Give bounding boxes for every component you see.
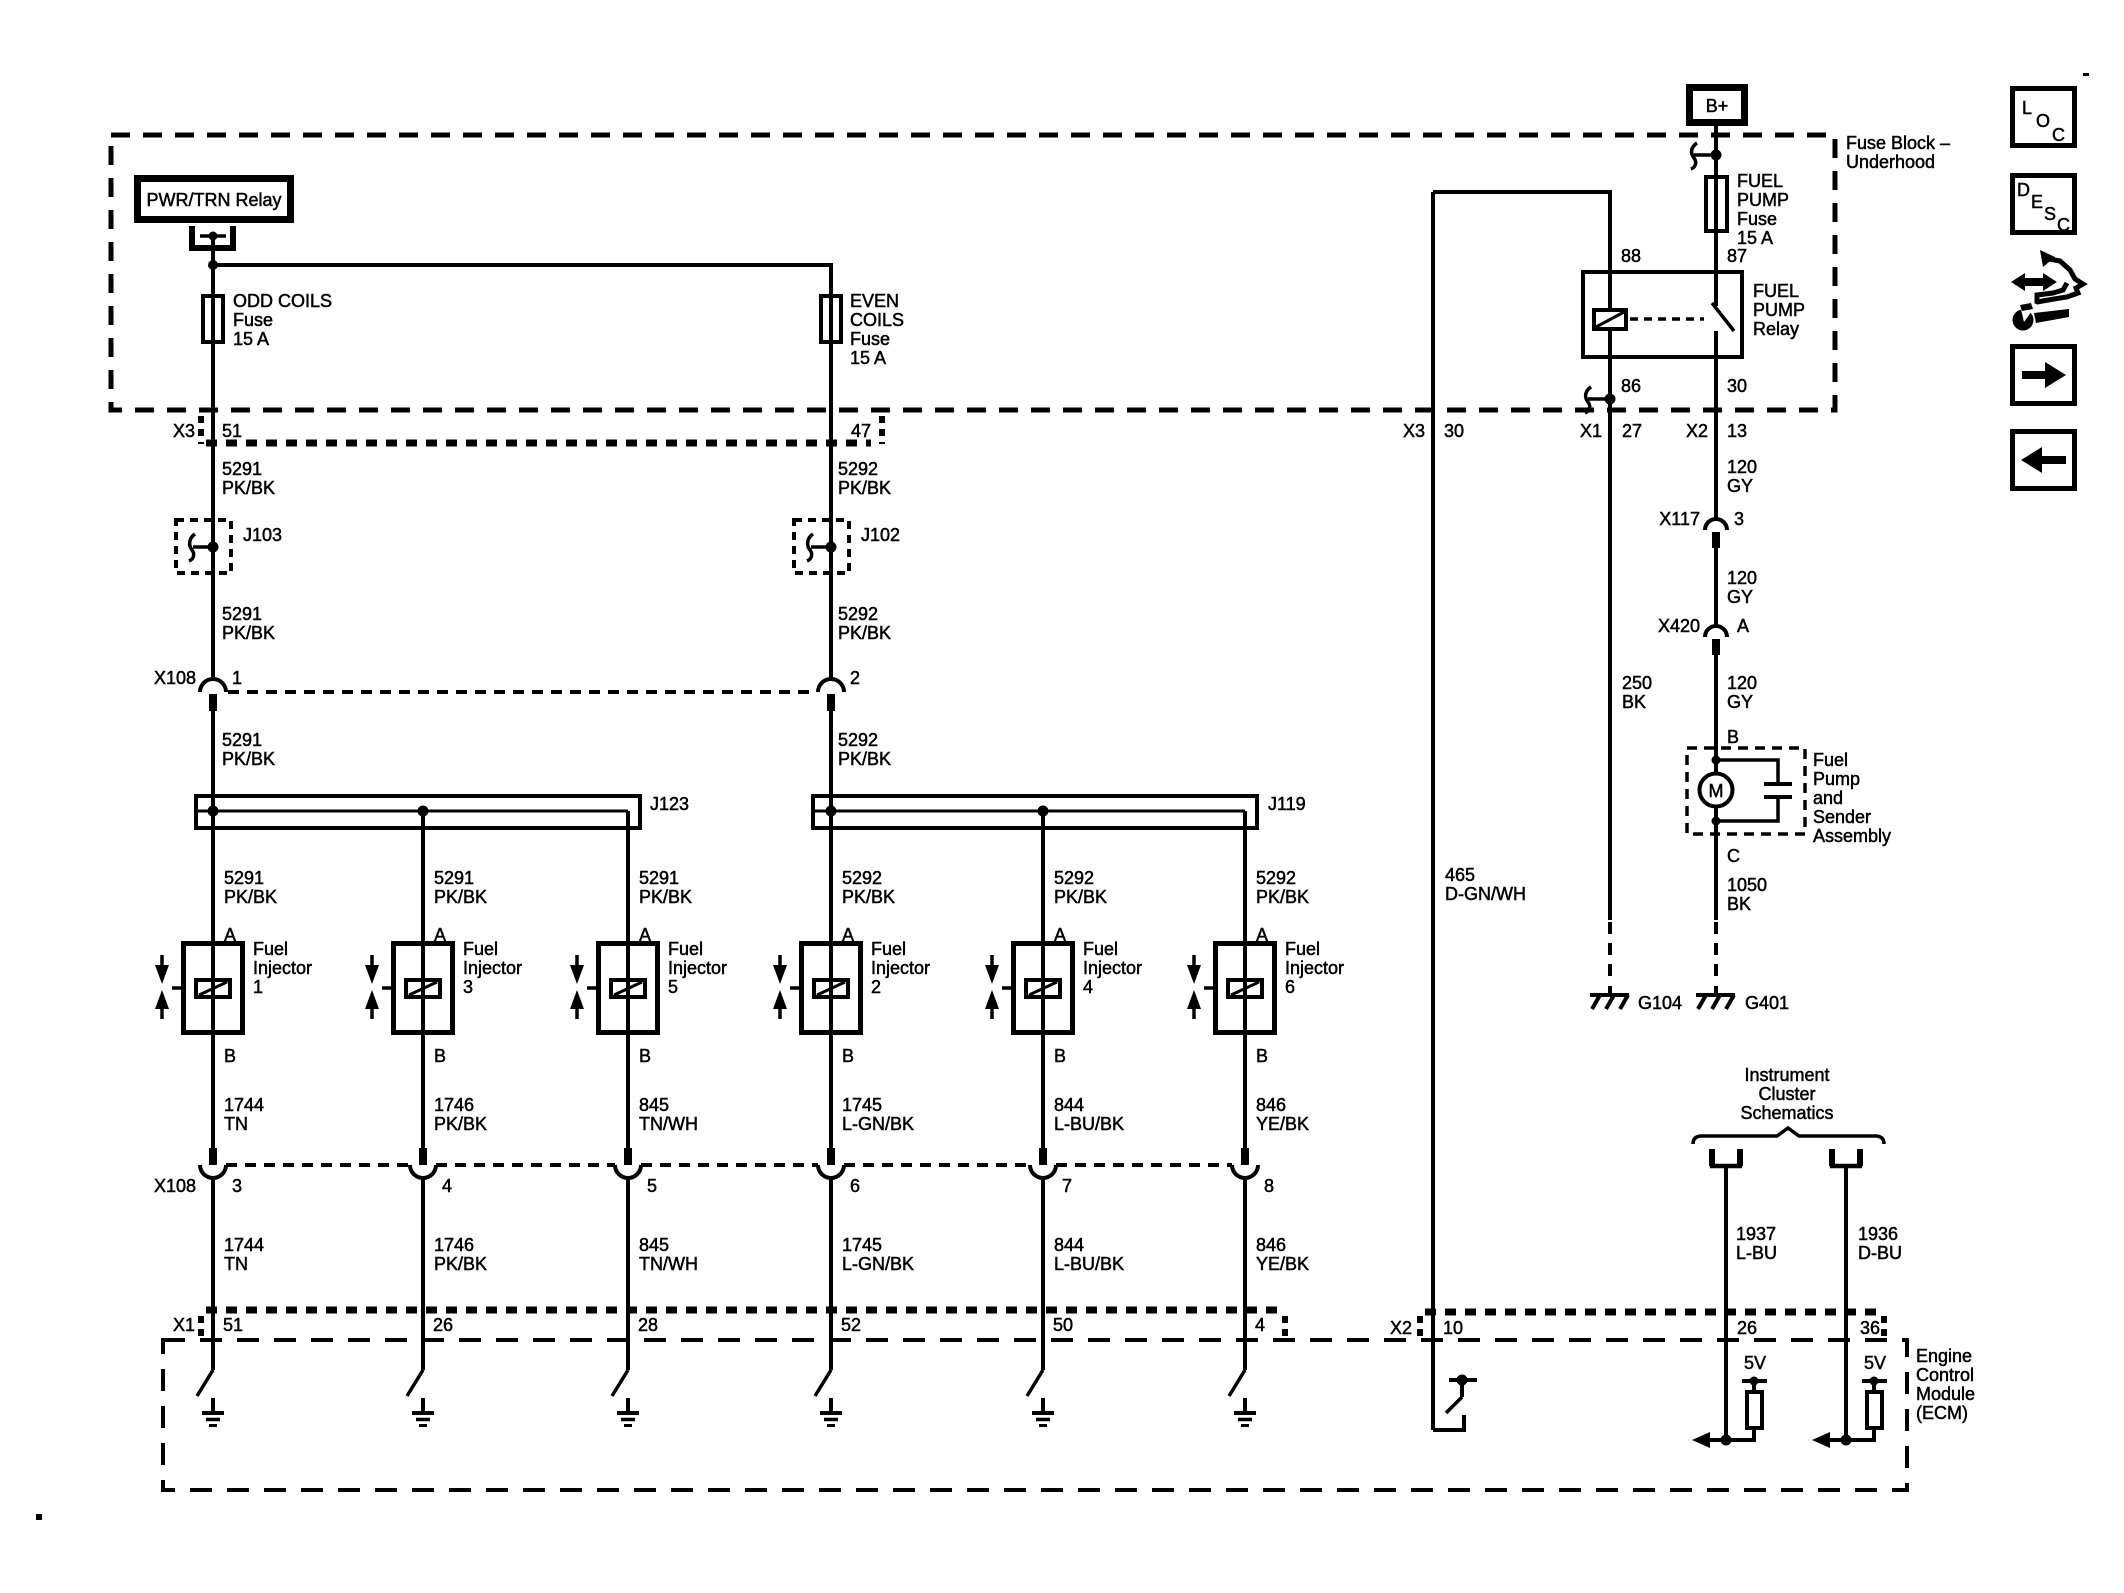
wire label 844 L-BU/BK (to ECM pin 50) xyxy=(1054,1235,1124,1274)
splice J102 xyxy=(794,520,900,573)
relay coil xyxy=(1594,310,1626,329)
5V reference label (pin 26) xyxy=(1744,1353,1766,1373)
wire label 250 BK xyxy=(1622,673,1652,712)
icon forward arrow button xyxy=(2013,347,2075,404)
svg-text:5: 5 xyxy=(647,1176,657,1196)
pump pin label C xyxy=(1727,846,1740,866)
fuel injector 3 xyxy=(365,939,522,1033)
svg-text:D-BU: D-BU xyxy=(1858,1243,1902,1263)
wire label 5291 PK/BK (injector 5 branch) xyxy=(639,868,692,907)
ground G104 xyxy=(1590,986,1682,1013)
svg-text:1744: 1744 xyxy=(224,1095,264,1115)
Engine Control Module dashed box xyxy=(163,1340,1975,1490)
wire 846 YE/BK from X108-8 to ECM xyxy=(1243,1176,1247,1370)
svg-text:844: 844 xyxy=(1054,1235,1084,1255)
ECM pullup resistor (pin 26) xyxy=(1692,1377,1767,1449)
dashed wire end 1050 BK to G401 xyxy=(1714,922,1718,978)
relay coil wire 88 side xyxy=(1433,192,1610,310)
svg-text:B: B xyxy=(1727,727,1739,747)
instrument cluster schematics note xyxy=(1740,1065,1833,1123)
svg-text:Fuel: Fuel xyxy=(871,939,906,959)
svg-text:6: 6 xyxy=(1285,977,1295,997)
svg-text:3: 3 xyxy=(463,977,473,997)
svg-text:1745: 1745 xyxy=(842,1235,882,1255)
relay pin 30 wire down xyxy=(1714,331,1718,519)
svg-text:TN: TN xyxy=(224,1254,248,1274)
svg-text:Fuel: Fuel xyxy=(1813,750,1848,770)
connector X108 pins 1/2 xyxy=(154,668,860,711)
svg-text:Relay: Relay xyxy=(1753,319,1799,339)
relay coil-switch dashed link xyxy=(1630,317,1704,321)
svg-text:5292: 5292 xyxy=(842,868,882,888)
wire 5292 from bus to fuel injector 2 xyxy=(829,794,833,1148)
pin A label injector 6 xyxy=(1256,925,1268,945)
ECM fuel pump relay driver switch xyxy=(1433,1375,1477,1431)
fuse ODD COILS 15 A xyxy=(203,291,332,349)
svg-text:PK/BK: PK/BK xyxy=(222,478,275,498)
connector X108 pin 7 terminal xyxy=(1030,1148,1056,1178)
svg-text:47: 47 xyxy=(851,421,871,441)
ground G401 xyxy=(1696,986,1789,1013)
brace under cluster note xyxy=(1693,1128,1884,1144)
svg-text:846: 846 xyxy=(1256,1095,1286,1115)
svg-text:5292: 5292 xyxy=(1256,868,1296,888)
relay pin label 30 xyxy=(1727,376,1747,396)
svg-text:30: 30 xyxy=(1444,421,1464,441)
junction node at top of odd/even feed xyxy=(208,260,218,270)
svg-text:Engine: Engine xyxy=(1916,1346,1972,1366)
connector X3 pin 30 xyxy=(1403,421,1464,441)
svg-text:J102: J102 xyxy=(861,525,900,545)
svg-text:FUEL: FUEL xyxy=(1737,171,1783,191)
svg-text:Injector: Injector xyxy=(1285,958,1344,978)
fuse block bus clip at relay pin 86 xyxy=(1585,387,1616,413)
fuel injector 5 xyxy=(570,939,727,1033)
icon vehicle diagnostic (arrows, car outline, wrench) xyxy=(2011,250,2083,331)
svg-text:PK/BK: PK/BK xyxy=(842,887,895,907)
svg-text:PUMP: PUMP xyxy=(1753,300,1805,320)
svg-text:L-BU: L-BU xyxy=(1736,1243,1777,1263)
svg-text:4: 4 xyxy=(1083,977,1093,997)
svg-text:Pump: Pump xyxy=(1813,769,1860,789)
svg-text:L-GN/BK: L-GN/BK xyxy=(842,1254,914,1274)
svg-text:5292: 5292 xyxy=(838,730,878,750)
dashed wire end 250 BK to G104 xyxy=(1608,922,1612,978)
svg-text:1: 1 xyxy=(232,668,242,688)
svg-text:Instrument: Instrument xyxy=(1744,1065,1829,1085)
svg-text:28: 28 xyxy=(638,1315,658,1335)
fuel injector 2 xyxy=(773,939,930,1033)
svg-text:D-GN/WH: D-GN/WH xyxy=(1445,884,1526,904)
svg-text:J103: J103 xyxy=(243,525,282,545)
fuel pump motor M xyxy=(1700,756,1733,826)
svg-text:L: L xyxy=(2022,98,2032,118)
wire label 1745 L-GN/BK (injector 2 to X108) xyxy=(842,1095,914,1134)
svg-text:1050: 1050 xyxy=(1727,875,1767,895)
fuel injector 4 xyxy=(985,939,1142,1033)
connector X108 pin 4 terminal xyxy=(410,1148,436,1178)
relay coil wire 86 side down xyxy=(1608,329,1612,920)
wire 5291 from X108-1 down to J123 xyxy=(211,711,215,794)
svg-text:PK/BK: PK/BK xyxy=(434,1254,487,1274)
svg-text:(ECM): (ECM) xyxy=(1916,1403,1968,1423)
svg-text:Injector: Injector xyxy=(668,958,727,978)
wire label 1937 L-BU xyxy=(1736,1224,1777,1263)
svg-text:GY: GY xyxy=(1727,587,1753,607)
ECM driver switch and ground (injector 1) xyxy=(197,1370,224,1426)
pin B label injector 6 xyxy=(1256,1046,1268,1066)
svg-text:X2: X2 xyxy=(1686,421,1708,441)
svg-text:C: C xyxy=(2052,125,2065,145)
svg-text:Injector: Injector xyxy=(1083,958,1142,978)
svg-text:X1: X1 xyxy=(1580,421,1602,441)
svg-text:Fuse: Fuse xyxy=(233,310,273,330)
ECM driver switch and ground (injector 4) xyxy=(1027,1370,1054,1426)
svg-text:1: 1 xyxy=(253,977,263,997)
svg-text:TN/WH: TN/WH xyxy=(639,1254,698,1274)
svg-text:X420: X420 xyxy=(1658,616,1700,636)
wire 5291 from bus to fuel injector 1 xyxy=(211,794,215,1148)
svg-text:PK/BK: PK/BK xyxy=(434,1114,487,1134)
wire 5291 from bus to fuel injector 3 xyxy=(421,811,425,1148)
svg-text:8: 8 xyxy=(1264,1176,1274,1196)
icon LOC button xyxy=(2013,89,2075,146)
svg-text:BK: BK xyxy=(1727,894,1751,914)
svg-text:B: B xyxy=(434,1046,446,1066)
svg-text:S: S xyxy=(2044,204,2056,224)
svg-text:M: M xyxy=(1709,781,1724,801)
svg-text:Fuel: Fuel xyxy=(463,939,498,959)
svg-text:5291: 5291 xyxy=(224,868,264,888)
wire 1050 BK from pump to G401 xyxy=(1714,807,1718,920)
svg-text:465: 465 xyxy=(1445,865,1475,885)
pin B label injector 1 xyxy=(224,1046,236,1066)
svg-text:15 A: 15 A xyxy=(850,348,886,368)
relay pin label 87 xyxy=(1727,246,1747,266)
svg-text:88: 88 xyxy=(1621,246,1641,266)
svg-text:2: 2 xyxy=(850,668,860,688)
connector X2 pin row 10/26/36 xyxy=(1390,1312,1884,1338)
svg-text:1745: 1745 xyxy=(842,1095,882,1115)
wire label 5292 PK/BK (injector 6 branch) xyxy=(1256,868,1309,907)
fuel injector 6 xyxy=(1187,939,1344,1033)
svg-text:51: 51 xyxy=(223,1315,243,1335)
B+ battery terminal box xyxy=(1690,88,1745,123)
svg-text:1936: 1936 xyxy=(1858,1224,1898,1244)
pin B label injector 4 xyxy=(1054,1046,1066,1066)
page speck bottom left xyxy=(36,1514,42,1520)
svg-text:Cluster: Cluster xyxy=(1758,1084,1815,1104)
svg-text:TN: TN xyxy=(224,1114,248,1134)
svg-text:1746: 1746 xyxy=(434,1095,474,1115)
svg-text:GY: GY xyxy=(1727,692,1753,712)
wire label 844 L-BU/BK (injector 4 to X108) xyxy=(1054,1095,1124,1134)
wire label 845 TN/WH (to ECM pin 28) xyxy=(639,1235,698,1274)
page speck top right xyxy=(2083,73,2089,76)
svg-text:C: C xyxy=(1727,846,1740,866)
svg-text:G401: G401 xyxy=(1745,993,1789,1013)
PWR/TRN relay terminal symbol xyxy=(192,226,233,248)
svg-text:BK: BK xyxy=(1622,692,1646,712)
wire label 5291 PK/BK (above J123) xyxy=(222,730,275,769)
svg-text:Module: Module xyxy=(1916,1384,1975,1404)
svg-text:C: C xyxy=(2057,215,2070,235)
wire label 1936 D-BU xyxy=(1858,1224,1902,1263)
svg-text:X2: X2 xyxy=(1390,1318,1412,1338)
wire from PWR/TRN relay down to junction xyxy=(211,239,215,270)
wire label 5291 PK/BK (below X3) xyxy=(222,459,275,498)
svg-text:FUEL: FUEL xyxy=(1753,281,1799,301)
svg-text:PK/BK: PK/BK xyxy=(434,887,487,907)
svg-text:Injector: Injector xyxy=(463,958,522,978)
svg-text:2: 2 xyxy=(871,977,881,997)
pump pin label B xyxy=(1727,727,1739,747)
svg-text:PK/BK: PK/BK xyxy=(838,623,891,643)
connector X2 pin 13 xyxy=(1686,421,1747,441)
svg-text:10: 10 xyxy=(1443,1318,1463,1338)
wire 5292 from bus to fuel injector 4 xyxy=(1041,811,1045,1148)
pin B label injector 5 xyxy=(639,1046,651,1066)
svg-text:Fuel: Fuel xyxy=(253,939,288,959)
fuel injector 1 xyxy=(155,939,312,1033)
svg-text:J119: J119 xyxy=(1268,794,1306,814)
ECM driver switch and ground (injector 3) xyxy=(407,1370,434,1426)
svg-text:X3: X3 xyxy=(1403,421,1425,441)
wire label 5292 PK/BK (injector 2 branch) xyxy=(842,868,895,907)
fuel pump capacitor branch xyxy=(1716,760,1792,821)
wire 5292 from X108-2 down to J119 xyxy=(829,711,833,794)
svg-text:Fuse Block –: Fuse Block – xyxy=(1846,133,1950,153)
svg-text:L-BU/BK: L-BU/BK xyxy=(1054,1254,1124,1274)
wire 120 GY between X117 and X420 xyxy=(1714,548,1718,627)
svg-text:52: 52 xyxy=(841,1315,861,1335)
svg-text:YE/BK: YE/BK xyxy=(1256,1114,1309,1134)
svg-text:5291: 5291 xyxy=(639,868,679,888)
relay pin label 86 xyxy=(1621,376,1641,396)
svg-text:B: B xyxy=(1256,1046,1268,1066)
wire label 465 D-GN/WH xyxy=(1445,865,1526,904)
wire 844 L-BU/BK from X108-7 to ECM xyxy=(1041,1176,1045,1370)
connector X108 pin 6 terminal xyxy=(818,1148,844,1178)
instrument cluster connector (1936) xyxy=(1830,1149,1862,1166)
relay pin label 88 xyxy=(1621,246,1641,266)
svg-text:B: B xyxy=(842,1046,854,1066)
splice bus J123 xyxy=(196,794,689,828)
svg-text:Sender: Sender xyxy=(1813,807,1871,827)
fuse block bus clip at B+ feed xyxy=(1691,143,1722,169)
svg-text:YE/BK: YE/BK xyxy=(1256,1254,1309,1274)
svg-text:5292: 5292 xyxy=(1054,868,1094,888)
svg-text:15 A: 15 A xyxy=(1737,228,1773,248)
svg-text:PUMP: PUMP xyxy=(1737,190,1789,210)
pin B label injector 2 xyxy=(842,1046,854,1066)
svg-text:PK/BK: PK/BK xyxy=(838,749,891,769)
svg-text:120: 120 xyxy=(1727,457,1757,477)
wire 465 D-GN/WH vertical xyxy=(1431,192,1435,1430)
wire label 1746 PK/BK (injector 3 to X108) xyxy=(434,1095,487,1134)
svg-text:PK/BK: PK/BK xyxy=(838,478,891,498)
svg-text:Fuse: Fuse xyxy=(850,329,890,349)
svg-text:X1: X1 xyxy=(173,1315,195,1335)
connector X108 pin 5 terminal xyxy=(615,1148,641,1178)
fuse FUEL PUMP 15 A xyxy=(1706,171,1789,248)
svg-text:PK/BK: PK/BK xyxy=(222,623,275,643)
svg-text:B: B xyxy=(1054,1046,1066,1066)
svg-text:87: 87 xyxy=(1727,246,1747,266)
svg-text:27: 27 xyxy=(1622,421,1642,441)
wire label 5291 PK/BK (injector 3 branch) xyxy=(434,868,487,907)
svg-text:Control: Control xyxy=(1916,1365,1974,1385)
svg-text:5V: 5V xyxy=(1744,1353,1766,1373)
wire odd coils feed down (5291) xyxy=(211,265,215,680)
wire from B+ to fuel pump fuse xyxy=(1714,126,1718,306)
svg-text:26: 26 xyxy=(433,1315,453,1335)
svg-text:L-GN/BK: L-GN/BK xyxy=(842,1114,914,1134)
wire label 1744 TN (injector 1 to X108) xyxy=(224,1095,264,1134)
connector X1 pin row xyxy=(173,1310,1285,1338)
wire even coils feed down (5292) xyxy=(829,294,833,680)
wire label 5292 PK/BK (above J119) xyxy=(838,730,891,769)
fuse EVEN COILS 15 A xyxy=(821,291,904,368)
splice bus J119 xyxy=(813,794,1306,828)
wire 5291 from bus to fuel injector 5 xyxy=(626,811,630,1148)
svg-text:3: 3 xyxy=(232,1176,242,1196)
svg-text:ODD COILS: ODD COILS xyxy=(233,291,332,311)
svg-text:J123: J123 xyxy=(650,794,689,814)
svg-text:6: 6 xyxy=(850,1176,860,1196)
wire label 846 YE/BK (to ECM pin 4) xyxy=(1256,1235,1309,1274)
wire label 120 GY (below X2-13) xyxy=(1727,457,1757,496)
svg-text:Injector: Injector xyxy=(871,958,930,978)
wire 1744 TN from X108-3 to ECM xyxy=(211,1176,215,1370)
svg-text:Assembly: Assembly xyxy=(1813,826,1891,846)
relay switch blade xyxy=(1712,303,1734,331)
svg-text:and: and xyxy=(1813,788,1843,808)
svg-text:4: 4 xyxy=(1255,1315,1265,1335)
svg-text:30: 30 xyxy=(1727,376,1747,396)
svg-text:5V: 5V xyxy=(1864,1353,1886,1373)
wire 845 TN/WH from X108-5 to ECM xyxy=(626,1176,630,1370)
svg-text:B+: B+ xyxy=(1706,96,1729,116)
wire label 1746 PK/BK (to ECM pin 26) xyxy=(434,1235,487,1274)
connector X108 pin 8 terminal xyxy=(1232,1148,1258,1178)
wire label 5291 PK/BK (injector 1 branch) xyxy=(224,868,277,907)
svg-text:B: B xyxy=(224,1046,236,1066)
wire label 5292 PK/BK (below J102) xyxy=(838,604,891,643)
fuse block underhood dashed box xyxy=(111,133,1950,410)
svg-text:X108: X108 xyxy=(154,668,196,688)
svg-text:5292: 5292 xyxy=(838,604,878,624)
icon DESC button xyxy=(2013,176,2075,236)
svg-text:7: 7 xyxy=(1062,1176,1072,1196)
svg-text:5291: 5291 xyxy=(222,730,262,750)
svg-text:845: 845 xyxy=(639,1095,669,1115)
svg-text:X117: X117 xyxy=(1659,509,1700,529)
svg-text:GY: GY xyxy=(1727,476,1753,496)
svg-text:PK/BK: PK/BK xyxy=(1256,887,1309,907)
svg-text:5291: 5291 xyxy=(434,868,474,888)
svg-text:PK/BK: PK/BK xyxy=(224,887,277,907)
pin A label injector 4 xyxy=(1054,925,1066,945)
svg-text:TN/WH: TN/WH xyxy=(639,1114,698,1134)
svg-text:G104: G104 xyxy=(1638,993,1682,1013)
wire horizontal feed to even coils fuse xyxy=(213,265,831,294)
svg-text:13: 13 xyxy=(1727,421,1747,441)
wire 1746 PK/BK from X108-4 to ECM xyxy=(421,1176,425,1370)
wire label 1744 TN (to ECM pin 51) xyxy=(224,1235,264,1274)
svg-text:X108: X108 xyxy=(154,1176,196,1196)
svg-text:D: D xyxy=(2017,180,2030,200)
wire 120 GY from X420 to fuel pump xyxy=(1714,655,1718,775)
wire label 1050 BK xyxy=(1727,875,1767,914)
wire 1745 L-GN/BK from X108-6 to ECM xyxy=(829,1176,833,1370)
svg-text:Fuel: Fuel xyxy=(1285,939,1320,959)
wire label 846 YE/BK (injector 6 to X108) xyxy=(1256,1095,1309,1134)
splice J103 xyxy=(176,520,282,573)
svg-text:15 A: 15 A xyxy=(233,329,269,349)
wire 5292 from bus to fuel injector 6 xyxy=(1243,811,1247,1148)
wire 1936 D-BU xyxy=(1844,1166,1848,1440)
svg-text:E: E xyxy=(2031,192,2043,212)
connector X420 pin A xyxy=(1658,616,1749,655)
svg-text:845: 845 xyxy=(639,1235,669,1255)
ECM driver switch and ground (injector 6) xyxy=(1229,1370,1256,1426)
instrument cluster connector (1937) xyxy=(1710,1149,1742,1166)
relay FUEL PUMP relay box xyxy=(1583,272,1805,357)
icon back arrow button xyxy=(2013,432,2075,489)
connector X108 lower row label and pins xyxy=(154,1165,1274,1196)
wire label 5291 PK/BK (below J103) xyxy=(222,604,275,643)
svg-text:844: 844 xyxy=(1054,1095,1084,1115)
svg-text:Fuel: Fuel xyxy=(668,939,703,959)
svg-text:Fuse: Fuse xyxy=(1737,209,1777,229)
svg-text:5291: 5291 xyxy=(222,459,262,479)
svg-text:EVEN: EVEN xyxy=(850,291,899,311)
svg-text:Underhood: Underhood xyxy=(1846,152,1935,172)
svg-text:1746: 1746 xyxy=(434,1235,474,1255)
svg-text:26: 26 xyxy=(1737,1318,1757,1338)
svg-text:5292: 5292 xyxy=(838,459,878,479)
wire 1937 L-BU xyxy=(1724,1166,1728,1440)
svg-text:Schematics: Schematics xyxy=(1740,1103,1833,1123)
pin B label injector 3 xyxy=(434,1046,446,1066)
connector X108 pin 3 terminal xyxy=(200,1148,226,1178)
svg-text:L-BU/BK: L-BU/BK xyxy=(1054,1114,1124,1134)
wire label 5292 PK/BK (injector 4 branch) xyxy=(1054,868,1107,907)
connector X1 pin 27 xyxy=(1580,421,1642,441)
svg-text:A: A xyxy=(1737,616,1749,636)
svg-text:846: 846 xyxy=(1256,1235,1286,1255)
svg-text:PK/BK: PK/BK xyxy=(222,749,275,769)
svg-text:120: 120 xyxy=(1727,568,1757,588)
pin A label injector 1 xyxy=(224,925,236,945)
svg-text:PWR/TRN Relay: PWR/TRN Relay xyxy=(146,190,281,210)
wire label 120 GY (below X420) xyxy=(1727,673,1757,712)
svg-text:3: 3 xyxy=(1734,509,1744,529)
PWR/TRN Relay label box xyxy=(138,179,291,220)
svg-text:4: 4 xyxy=(442,1176,452,1196)
wire label 5292 PK/BK (below X3) xyxy=(838,459,891,498)
pin A label injector 2 xyxy=(842,925,854,945)
fuel pump and sender assembly dashed box xyxy=(1687,748,1891,846)
svg-text:1937: 1937 xyxy=(1736,1224,1776,1244)
5V reference label (pin 36) xyxy=(1864,1353,1886,1373)
svg-text:36: 36 xyxy=(1860,1318,1880,1338)
svg-text:86: 86 xyxy=(1621,376,1641,396)
connector X117 pin 3 xyxy=(1659,509,1744,548)
svg-text:B: B xyxy=(639,1046,651,1066)
svg-text:X3: X3 xyxy=(173,421,195,441)
